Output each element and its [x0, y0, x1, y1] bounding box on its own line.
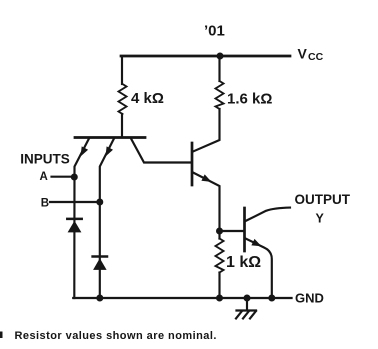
svg-text:4 kΩ: 4 kΩ [131, 90, 164, 107]
svg-text:1.6 kΩ: 1.6 kΩ [227, 90, 272, 107]
svg-text:1 kΩ: 1 kΩ [226, 254, 261, 271]
svg-text:A: A [40, 171, 48, 183]
svg-text:Y: Y [316, 211, 325, 225]
svg-text:B: B [41, 197, 49, 209]
svg-text:Resistor values shown are nomi: Resistor values shown are nominal. [15, 330, 217, 342]
svg-text:GND: GND [295, 290, 324, 305]
svg-text:V: V [298, 46, 308, 62]
svg-text:INPUTS: INPUTS [20, 152, 70, 167]
svg-text:CC: CC [308, 51, 324, 63]
svg-text:OUTPUT: OUTPUT [295, 192, 351, 207]
svg-text:’01: ’01 [204, 23, 225, 40]
